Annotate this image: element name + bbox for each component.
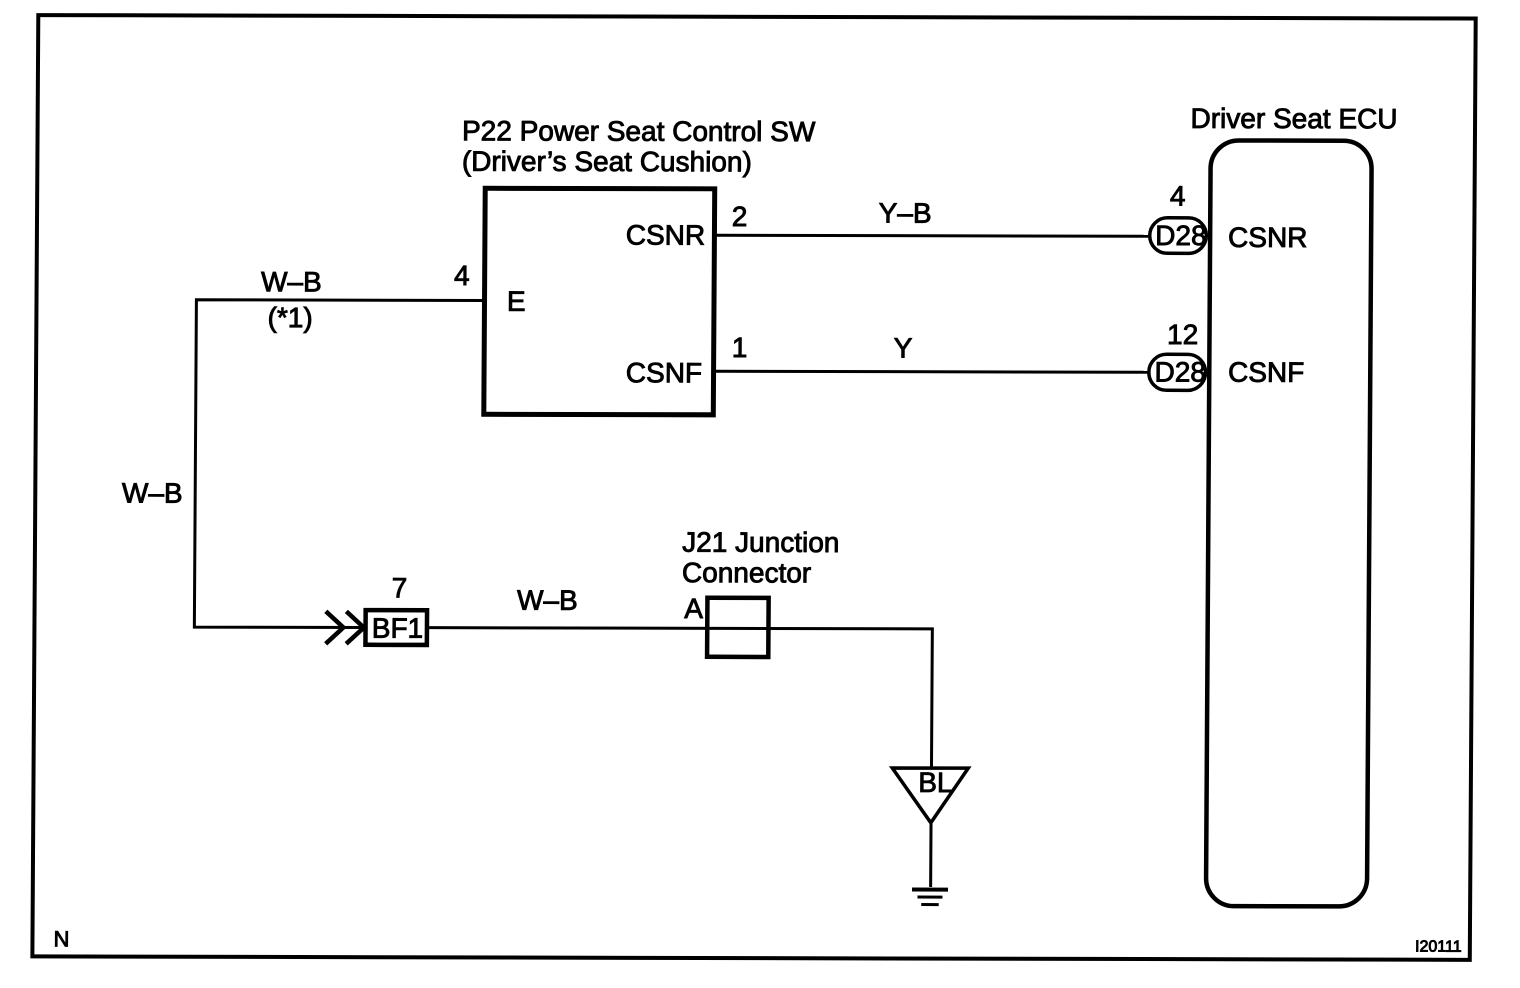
svg-text:N: N [54, 926, 70, 951]
svg-text:W–B: W–B [122, 478, 183, 509]
svg-text:D28: D28 [1155, 220, 1207, 251]
svg-text:12: 12 [1167, 319, 1198, 350]
svg-text:1: 1 [732, 332, 748, 363]
svg-text:D28: D28 [1154, 356, 1206, 387]
svg-text:E: E [507, 286, 526, 317]
svg-text:(*1): (*1) [268, 302, 313, 333]
svg-text:(Driver’s Seat Cushion): (Driver’s Seat Cushion) [462, 146, 752, 178]
svg-text:CSNF: CSNF [626, 357, 702, 388]
svg-text:7: 7 [392, 572, 408, 603]
svg-text:BL: BL [918, 767, 952, 798]
svg-text:4: 4 [1170, 181, 1186, 212]
svg-text:4: 4 [454, 260, 470, 291]
svg-text:CSNR: CSNR [1228, 222, 1308, 253]
svg-text:CSNF: CSNF [1228, 357, 1304, 388]
svg-text:CSNR: CSNR [626, 220, 706, 251]
svg-text:Connector: Connector [682, 557, 811, 588]
svg-text:BF1: BF1 [372, 613, 424, 644]
svg-text:A: A [684, 593, 703, 624]
svg-text:Driver Seat ECU: Driver Seat ECU [1190, 103, 1397, 134]
svg-text:W–B: W–B [517, 585, 578, 616]
svg-text:W–B: W–B [261, 266, 322, 297]
svg-text:P22 Power Seat Control SW: P22 Power Seat Control SW [462, 115, 816, 147]
svg-text:Y–B: Y–B [879, 198, 932, 229]
svg-text:J21 Junction: J21 Junction [682, 527, 839, 558]
svg-text:2: 2 [732, 201, 748, 232]
svg-text:I20111: I20111 [1415, 939, 1462, 956]
svg-text:Y: Y [894, 332, 913, 363]
